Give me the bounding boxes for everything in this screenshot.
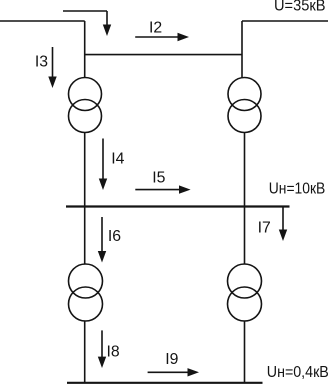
- svg-text:I6: I6: [108, 228, 121, 245]
- transformer T3 primary winding: [69, 264, 103, 298]
- svg-text:I5: I5: [152, 170, 165, 187]
- svg-text:U=35кВ: U=35кВ: [274, 0, 326, 15]
- wire top feeder horizontal: [63, 10, 107, 12]
- wire T4 to 0.4kV bus: [244, 321, 246, 383]
- bus 10kV: [66, 205, 290, 207]
- bus 0.4kV: [67, 382, 263, 384]
- svg-text:I2: I2: [149, 20, 162, 37]
- wire 35kV bus left: [0, 20, 85, 22]
- transformer T2 primary winding: [228, 78, 261, 111]
- current arrow I3: [48, 47, 56, 88]
- svg-text:I4: I4: [111, 150, 124, 167]
- wire 10kV bus to T4: [244, 207, 246, 265]
- current arrow into 35kV node: [103, 11, 111, 36]
- wire right drop to transformer T2: [241, 21, 243, 78]
- transformer T1 secondary winding: [69, 100, 102, 133]
- wire 35kV tie branch: [85, 54, 242, 56]
- current arrow I7 load tap: [279, 207, 287, 242]
- current arrow I5: [135, 185, 190, 193]
- transformer T4 primary winding: [228, 264, 262, 298]
- transformer T4 secondary winding: [228, 287, 262, 321]
- svg-text:I9: I9: [165, 351, 178, 368]
- current arrow I2: [135, 33, 189, 41]
- wire 35kV bus right: [242, 20, 328, 22]
- wire T2 to 10kV bus: [244, 133, 246, 207]
- wire 10kV bus to T3: [84, 207, 86, 265]
- wire left drop to transformer T1: [84, 21, 86, 78]
- transformer T1 primary winding: [69, 78, 102, 111]
- svg-text:I8: I8: [107, 344, 120, 361]
- current arrow I9: [148, 368, 199, 376]
- svg-text:I3: I3: [35, 53, 48, 70]
- wire T1 to 10kV bus: [84, 133, 86, 207]
- transformer T3 secondary winding: [69, 287, 103, 321]
- svg-text:Uн=10кВ: Uн=10кВ: [269, 181, 326, 198]
- current arrow I8: [98, 330, 106, 368]
- current arrow I4: [99, 139, 107, 191]
- svg-text:I7: I7: [258, 219, 271, 236]
- svg-text:Uн=0,4кВ: Uн=0,4кВ: [267, 364, 328, 381]
- wire T3 to 0.4kV bus: [84, 321, 86, 383]
- current arrow I6: [98, 217, 106, 263]
- transformer T2 secondary winding: [228, 100, 261, 133]
